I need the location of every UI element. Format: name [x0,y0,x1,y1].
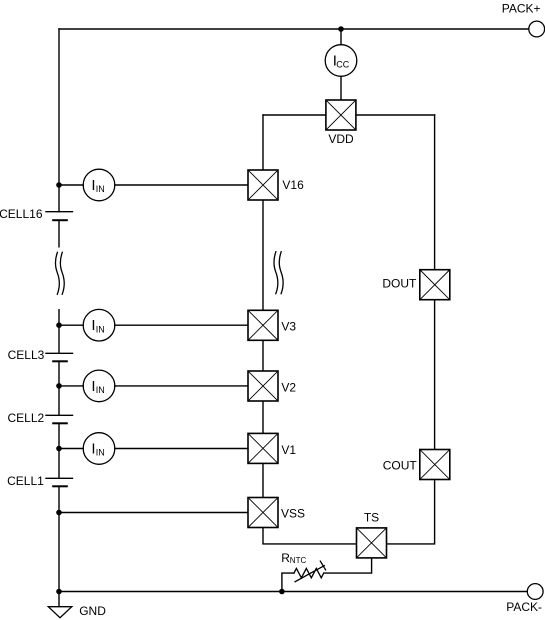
svg-text:CELL1: CELL1 [7,474,44,488]
svg-text:V3: V3 [281,320,296,334]
svg-text:DOUT: DOUT [382,276,417,290]
svg-text:CELL3: CELL3 [8,348,45,362]
svg-text:TS: TS [364,511,379,525]
svg-text:IN: IN [96,448,105,458]
svg-text:V1: V1 [281,443,296,457]
svg-text:V16: V16 [282,178,304,192]
svg-text:VSS: VSS [281,506,305,520]
svg-text:COUT: COUT [383,459,418,473]
svg-text:VDD: VDD [328,132,354,146]
svg-text:IN: IN [96,184,105,194]
svg-text:CELL2: CELL2 [7,411,44,425]
svg-text:CELL16: CELL16 [0,207,43,221]
svg-text:PACK+: PACK+ [502,2,541,16]
svg-text:GND: GND [79,604,106,618]
svg-text:NTC: NTC [290,556,307,565]
svg-text:IN: IN [96,324,105,334]
svg-text:V2: V2 [281,381,296,395]
svg-text:IN: IN [96,385,105,395]
svg-text:CC: CC [336,59,349,69]
svg-text:PACK-: PACK- [506,600,542,614]
